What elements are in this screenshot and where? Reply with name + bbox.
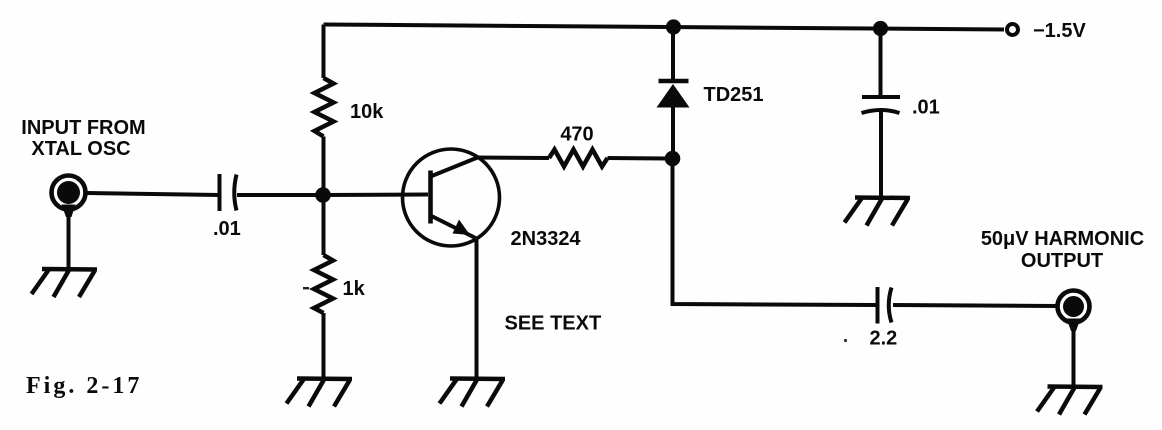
wire 10k top lead	[322, 25, 326, 79]
svg-text:−1.5V: −1.5V	[1033, 20, 1086, 42]
speck near 1k	[303, 287, 309, 289]
speck near 2.2	[844, 339, 847, 342]
wire output jack ground stub	[1072, 329, 1076, 387]
node base junction	[315, 187, 331, 203]
node collector-diode junction	[665, 151, 681, 167]
svg-text:2.2: 2.2	[870, 328, 898, 350]
diode D TD251 triangle	[657, 84, 690, 108]
wire diode anode lead	[671, 107, 675, 152]
svg-text:XTAL OSC: XTAL OSC	[31, 138, 130, 160]
svg-text:.01: .01	[912, 97, 940, 119]
wire .01 to ground	[879, 111, 883, 198]
transistor base bar	[428, 171, 433, 224]
svg-text:SEE TEXT: SEE TEXT	[505, 313, 602, 335]
svg-text:2N3324: 2N3324	[511, 228, 582, 250]
output jack connector	[1058, 291, 1090, 323]
transistor emitter arrowhead	[453, 220, 471, 236]
node top rail diode junction	[666, 19, 681, 34]
ground below 1k	[287, 379, 353, 407]
terminal -1.5V open circle	[1007, 24, 1018, 35]
svg-text:1k: 1k	[343, 278, 366, 300]
wire collector to 470	[478, 156, 550, 161]
svg-text:50μV HARMONIC: 50μV HARMONIC	[981, 228, 1144, 250]
capacitor C 2.2 left plate	[876, 287, 880, 324]
svg-text:OUTPUT: OUTPUT	[1021, 250, 1103, 272]
ground below emitter	[440, 379, 506, 407]
wire top supply rail	[324, 25, 1005, 30]
ground below output jack	[1037, 387, 1103, 415]
wire emitter to ground	[475, 239, 479, 379]
wire capacitor to base node	[237, 193, 316, 197]
ground below input jack	[32, 269, 98, 297]
transistor collector stroke	[431, 158, 478, 177]
wire base node to transistor base	[323, 193, 428, 198]
svg-text:INPUT FROM: INPUT FROM	[21, 117, 145, 139]
wire 1k bottom lead	[322, 313, 326, 379]
wire 1k top lead	[322, 195, 326, 255]
wire rail to .01 cap	[879, 29, 883, 96]
wire 470 to diode node	[608, 156, 667, 161]
resistor 470	[549, 150, 608, 167]
svg-text:TD251: TD251	[704, 84, 764, 106]
ground below .01	[845, 198, 911, 226]
resistor 1k	[314, 255, 333, 313]
wire diode node down and right to 2.2	[673, 159, 876, 306]
input jack connector	[52, 176, 86, 210]
svg-text:.01: .01	[213, 218, 241, 240]
svg-text:10k: 10k	[350, 101, 384, 123]
svg-text:Fig. 2-17: Fig. 2-17	[26, 373, 142, 399]
wire input jack ground stub	[67, 215, 71, 269]
wire diode cathode lead	[671, 27, 675, 79]
transistor Q1 2N3324 circle	[403, 149, 500, 246]
wire 2.2 to output jack	[893, 305, 1056, 306]
wire input jack to capacitor .01	[88, 193, 220, 195]
node top rail .01 junction	[873, 21, 888, 36]
capacitor C 2.2 right plate	[889, 288, 892, 323]
diode D TD251 cathode bar	[659, 79, 689, 84]
svg-text:470: 470	[560, 124, 593, 146]
capacitor C .01 right, top plate	[862, 95, 900, 99]
wire 10k bottom lead to base node	[322, 137, 326, 196]
capacitor C .01 input, left plate	[218, 174, 222, 211]
capacitor C .01 input, right plate	[234, 175, 236, 211]
capacitor C .01 right, bottom plate	[862, 110, 900, 113]
transistor emitter stroke	[431, 216, 477, 239]
resistor 10k	[315, 78, 334, 137]
